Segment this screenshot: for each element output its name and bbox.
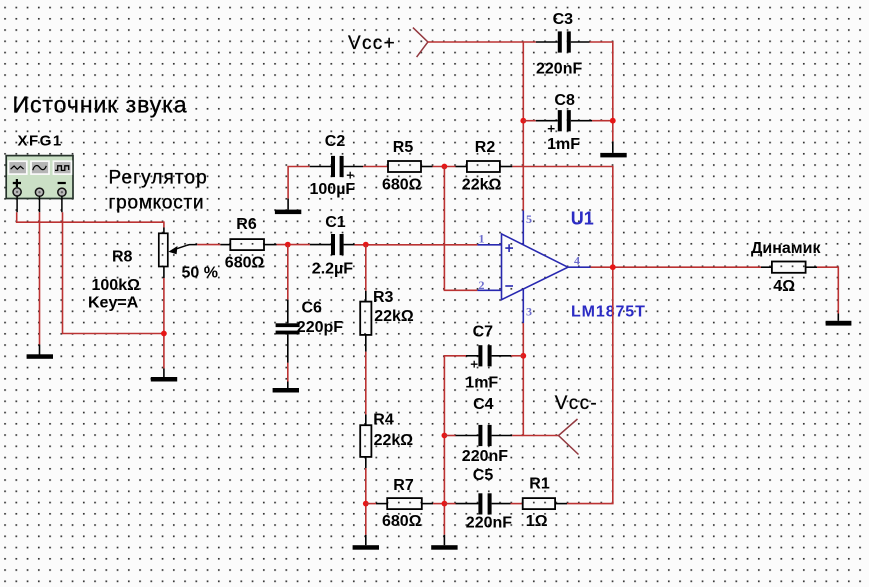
svg-text:C5: C5: [473, 467, 494, 484]
label C4: [473, 396, 494, 413]
title: Источник звука: [13, 92, 188, 118]
wire Vcc+ to C3: [428, 41, 536, 43]
svg-text:220nF: 220nF: [536, 60, 582, 77]
wire C4 right to Vcc-: [512, 435, 558, 437]
wire C1 to op-amp pin1: [355, 244, 478, 246]
svg-text:C3: C3: [553, 11, 574, 28]
resistor R3: [360, 291, 371, 352]
svg-text:C6: C6: [302, 299, 323, 316]
svg-text:R8: R8: [112, 249, 133, 266]
wire junction down to C6: [287, 245, 289, 300]
svg-text:100µF: 100µF: [310, 181, 356, 198]
svg-text:4Ω: 4Ω: [773, 278, 795, 295]
svg-text:22kΩ: 22kΩ: [374, 432, 414, 449]
label R6: [236, 216, 257, 233]
svg-text:2: 2: [479, 278, 485, 292]
value 220nF C3: [536, 60, 582, 77]
label C5: [473, 467, 494, 484]
resistor R2: [456, 161, 513, 172]
wire junction down to R3: [365, 245, 367, 291]
label 50 %: [182, 264, 218, 281]
wire Vcc+ column down to pin5: [522, 42, 524, 211]
ground under C2: [275, 199, 301, 215]
wire pot bottom to ground: [163, 278, 165, 369]
label R1: [529, 475, 550, 492]
label C2: [325, 133, 346, 150]
wire speaker right to ground: [817, 267, 838, 313]
svg-text:220nF: 220nF: [466, 515, 512, 532]
junction C1/R3: [363, 242, 369, 248]
wire feedback junction down to pin2: [444, 167, 477, 291]
label Key=A: [88, 294, 139, 311]
svg-text:4: 4: [574, 254, 580, 268]
svg-text:R6: R6: [236, 216, 257, 233]
resistor R1: [523, 498, 567, 509]
pin label 2: [479, 278, 485, 292]
pin label 4: [574, 254, 580, 268]
value 1mF C7: [465, 375, 498, 392]
ground under R4: [353, 535, 379, 550]
wire output to speaker: [591, 266, 762, 268]
label R7: [393, 477, 414, 494]
junction C8 right: [610, 118, 616, 124]
svg-text:Key=A: Key=A: [88, 294, 139, 311]
svg-text:Регулятор: Регулятор: [109, 168, 208, 189]
resistor R6: [220, 239, 276, 250]
svg-text:Vcc-: Vcc-: [555, 393, 598, 414]
wire XFG1 common down: [39, 212, 41, 344]
svg-text:Vcc+: Vcc+: [348, 33, 396, 54]
ground under potentiometer: [151, 369, 177, 382]
label Динамик: [751, 240, 821, 257]
label R4: [373, 412, 394, 429]
svg-text:3: 3: [526, 305, 532, 319]
svg-text:C8: C8: [554, 92, 575, 109]
svg-text:R4: R4: [373, 412, 394, 429]
svg-text:220nF: 220nF: [462, 448, 508, 465]
junction R7/C5: [442, 501, 448, 507]
label C1: [325, 214, 346, 231]
value 22kΩ R4: [374, 432, 414, 449]
wire C8 left: [523, 120, 535, 122]
label R5: [393, 139, 414, 156]
ground under XFG1 common: [27, 345, 53, 359]
power connector Vcc-: [559, 419, 579, 455]
label Vcc+: [348, 33, 396, 54]
wire C6 to ground: [287, 363, 289, 382]
svg-text:680Ω: 680Ω: [382, 177, 422, 194]
svg-text:220pF: 220pF: [297, 319, 343, 336]
value 220pF: [297, 319, 343, 336]
wire XFG1 minus to pot bottom junction: [63, 212, 164, 333]
potentiometer R8: [159, 228, 197, 279]
wire C7 right to junction: [511, 355, 523, 357]
junction C7 right: [520, 353, 526, 359]
wire R2 right to feedback column: [512, 167, 612, 268]
svg-text:680Ω: 680Ω: [382, 513, 422, 530]
svg-text:22kΩ: 22kΩ: [462, 177, 502, 194]
label R8: [112, 249, 133, 266]
label C8: [554, 92, 575, 109]
op-amp U1 LM1875T: [477, 211, 590, 324]
wire C7 left down to C4 junction and C5 junction and ground: [444, 356, 466, 535]
ground under C8: [600, 141, 626, 157]
svg-text:LM1875T: LM1875T: [571, 304, 646, 321]
capacitor C5: [456, 493, 511, 514]
svg-text:R3: R3: [373, 289, 394, 306]
svg-text:R1: R1: [529, 475, 550, 492]
svg-text:R7: R7: [393, 477, 414, 494]
junction C4 left: [442, 433, 448, 439]
capacitor C4: [456, 425, 513, 446]
junction R4/R7: [363, 501, 369, 507]
wire C8 right: [592, 121, 613, 142]
svg-text:C4: C4: [473, 396, 494, 413]
junction R5/R2/feedback: [442, 164, 448, 170]
svg-text:1mF: 1mF: [465, 375, 498, 392]
value 220nF C5: [466, 515, 512, 532]
svg-text:50 %: 50 %: [182, 264, 218, 281]
value 1Ω: [526, 513, 548, 530]
value 100µF: [310, 181, 356, 198]
label: Регулятор громкости: [109, 168, 208, 214]
wire wiper to R6: [197, 244, 220, 246]
svg-text:1Ω: 1Ω: [526, 513, 548, 530]
label Vcc-: [555, 393, 598, 414]
wire R3 to R4: [365, 352, 367, 415]
wire C2 left to ground: [288, 167, 310, 199]
resistor R4: [360, 415, 371, 469]
ground under speaker: [826, 314, 852, 326]
ground under C6: [273, 382, 299, 393]
capacitor C3: [536, 31, 590, 52]
pin label 5: [526, 212, 532, 226]
svg-text:2.2µF: 2.2µF: [312, 260, 353, 277]
value 680Ω R6: [225, 255, 265, 272]
label R3: [373, 289, 394, 306]
wire R7 right to junction: [433, 503, 444, 505]
capacitor C6: [276, 300, 300, 363]
wire C5 left: [444, 503, 455, 505]
svg-text:C2: C2: [325, 133, 346, 150]
wire C5 to R1: [511, 503, 523, 505]
junction C8 left: [520, 118, 526, 124]
label C3: [553, 11, 574, 28]
wire pin3 down to C7 junction and C4 row: [522, 323, 524, 435]
value 680Ω R5: [382, 177, 422, 194]
svg-text:Источник звука: Источник звука: [13, 92, 188, 118]
svg-text:R5: R5: [393, 139, 414, 156]
wire C4 left: [444, 435, 455, 437]
wire C2 to R5: [363, 166, 388, 168]
svg-text:5: 5: [526, 212, 532, 226]
label U1: [571, 208, 594, 228]
pin label 3: [526, 305, 532, 319]
power connector Vcc+: [413, 28, 428, 57]
label C6: [302, 299, 323, 316]
capacitor C7: [466, 345, 511, 367]
svg-text:R2: R2: [475, 139, 496, 156]
label LM1875T: [571, 304, 646, 321]
wire R7 left: [366, 503, 376, 505]
wire R5 to R2: [433, 166, 456, 168]
wire C3 right down to C8 right: [590, 42, 613, 121]
svg-text:Динамик: Динамик: [751, 240, 821, 257]
value 1mF C8: [547, 136, 580, 153]
function generator XFG1 label: [18, 132, 63, 149]
resistor R7: [376, 498, 433, 509]
value 22kΩ R3: [374, 308, 414, 325]
svg-text:680Ω: 680Ω: [225, 255, 265, 272]
wire R6 to C1: [277, 244, 311, 246]
value 2.2µF: [312, 260, 353, 277]
resistor R5: [388, 161, 433, 172]
function generator XFG1 body: [6, 156, 73, 213]
value 680Ω R7: [382, 513, 422, 530]
value 220nF C4: [462, 448, 508, 465]
speaker resistor 4Ω: [761, 262, 817, 273]
svg-text:громкости: громкости: [109, 192, 205, 213]
wire R4 to ground junction: [365, 468, 367, 535]
svg-text:22kΩ: 22kΩ: [374, 308, 414, 325]
junction output: [610, 264, 616, 270]
label R2: [475, 139, 496, 156]
svg-text:C7: C7: [473, 323, 494, 340]
svg-text:C1: C1: [325, 214, 346, 231]
label C7: [473, 323, 494, 340]
capacitor C1: [310, 234, 355, 255]
junction pot bottom: [161, 331, 167, 337]
svg-text:XFG1: XFG1: [18, 132, 63, 149]
svg-text:100kΩ: 100kΩ: [92, 277, 141, 294]
ground under C5 junction: [431, 535, 457, 550]
wire R1 right up to output junction: [567, 267, 613, 503]
junction R6/C6: [285, 242, 291, 248]
pin label 1: [479, 231, 485, 245]
svg-text:1: 1: [479, 231, 485, 245]
value 4Ω: [773, 278, 795, 295]
capacitor C8: [536, 110, 592, 132]
value 100kΩ: [92, 277, 141, 294]
value 22kΩ R2: [462, 177, 502, 194]
svg-text:1mF: 1mF: [547, 136, 580, 153]
svg-text:U1: U1: [571, 208, 594, 228]
capacitor C2: [310, 156, 363, 179]
wire XFG1 plus to potentiometer top: [17, 212, 164, 227]
